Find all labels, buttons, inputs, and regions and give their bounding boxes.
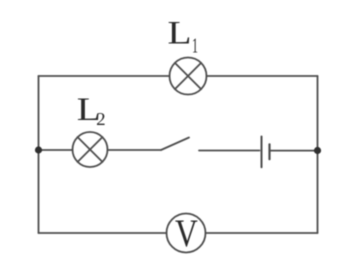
lamp L2 (73, 132, 108, 167)
wire right side (317, 76, 319, 233)
wire from lamp L2 to switch pivot (108, 149, 162, 151)
wire bottom segment right (206, 232, 318, 234)
switch S (open blade) (161, 138, 189, 151)
battery cell long plate (+) (261, 137, 263, 168)
wire left side (38, 76, 40, 233)
wire bottom segment left (39, 232, 167, 234)
wire top segment left (39, 75, 170, 77)
svg-text:L: L (168, 16, 192, 52)
voltmeter V (167, 214, 206, 253)
wire top segment right (207, 75, 318, 77)
junction node left (35, 146, 42, 153)
wire from switch contact to battery (199, 150, 260, 152)
battery cell short plate (-) (268, 144, 270, 159)
svg-text:V: V (175, 212, 198, 255)
wire middle from left junction to lamp L2 (39, 149, 73, 151)
svg-text:2: 2 (96, 109, 106, 129)
svg-text:1: 1 (192, 33, 198, 57)
wire from battery to right junction (271, 150, 318, 152)
junction node right (314, 147, 321, 154)
lamp L1 (170, 58, 207, 95)
